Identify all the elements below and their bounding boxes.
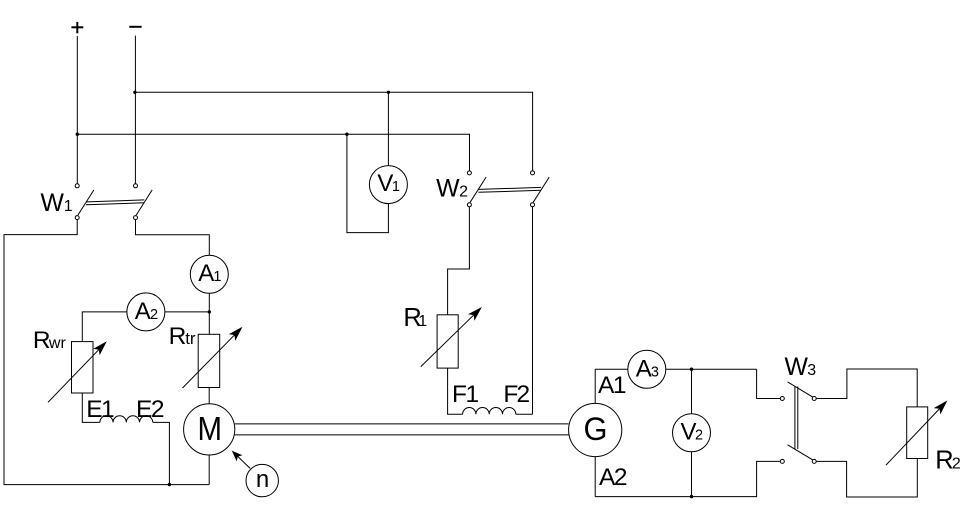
svg-text:2: 2 [459, 184, 468, 201]
svg-text:2: 2 [695, 428, 703, 444]
svg-text:E1: E1 [86, 396, 114, 423]
svg-text:2: 2 [952, 456, 961, 473]
svg-text:M: M [198, 410, 223, 447]
svg-text:A: A [135, 298, 151, 325]
svg-text:2: 2 [150, 307, 158, 323]
svg-text:n: n [256, 466, 269, 493]
svg-text:A2: A2 [599, 464, 627, 491]
svg-text:W: W [436, 176, 460, 203]
svg-text:A1: A1 [598, 372, 626, 399]
svg-text:R: R [169, 323, 187, 350]
svg-text:A: A [198, 260, 214, 287]
svg-text:1: 1 [213, 269, 221, 285]
svg-text:A: A [636, 355, 652, 382]
svg-text:R: R [935, 447, 953, 475]
svg-text:W: W [785, 354, 809, 381]
svg-text:1: 1 [64, 198, 73, 215]
svg-text:W: W [41, 190, 65, 217]
svg-text:1: 1 [392, 179, 400, 195]
svg-text:F2: F2 [503, 381, 529, 408]
svg-text:F1: F1 [452, 381, 478, 408]
svg-text:1: 1 [418, 313, 427, 330]
svg-text:3: 3 [651, 364, 659, 380]
svg-text:E2: E2 [136, 396, 164, 423]
svg-text:G: G [584, 411, 608, 447]
svg-text:wr: wr [48, 335, 67, 352]
svg-text:3: 3 [807, 362, 816, 379]
svg-text:tr: tr [185, 329, 196, 348]
